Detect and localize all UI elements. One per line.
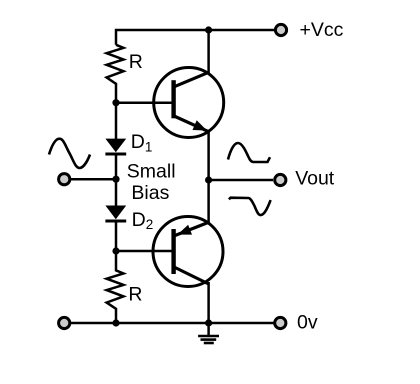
node top-rail/collector junction [205, 26, 212, 33]
diode D2 [105, 206, 126, 252]
terminal Vout [275, 174, 286, 185]
svg-text:0v: 0v [297, 311, 318, 333]
wire bottom rail [71, 322, 275, 325]
terminal input [59, 174, 70, 185]
svg-text:Bias: Bias [131, 182, 169, 204]
transistor Q2 (PNP) [153, 217, 223, 287]
svg-text:R: R [129, 51, 143, 73]
waveform positive half-cycle (above Vout) [228, 143, 270, 162]
terminal +Vcc [275, 24, 286, 35]
wire Vout node to terminal [209, 179, 273, 182]
svg-text:R: R [128, 284, 142, 306]
wire Q2 collector to bottom rail [207, 282, 210, 323]
node ground junction [205, 319, 212, 326]
wire Q1 emitter to Vout node [207, 130, 210, 180]
wire collector of Q1 to top rail [207, 30, 210, 74]
waveform negative half-cycle (below Vout) [229, 198, 271, 215]
input sine wave [49, 139, 90, 168]
wire Vout node to Q2 emitter [207, 180, 210, 224]
svg-text:Vout: Vout [295, 168, 335, 190]
wire base of Q1 [116, 101, 174, 104]
wire D2 anode lead [115, 179, 118, 206]
ground [198, 323, 219, 343]
node junction R/D1/base Q1 [112, 99, 119, 106]
wire top rail from R to +Vcc terminal [116, 30, 274, 45]
node bottom-left junction [112, 319, 119, 326]
terminal 0v [275, 317, 286, 328]
node bias junction [112, 176, 119, 183]
diode D1 [105, 139, 126, 179]
resistor R (bottom) [107, 251, 124, 323]
wire base of Q2 [116, 250, 174, 253]
node Vout junction [205, 176, 212, 183]
svg-text:Small: Small [127, 160, 176, 182]
wire input to bias node [71, 178, 117, 181]
node junction D2/R/base Q2 [112, 247, 119, 254]
terminal bottom-left (input return) [59, 317, 70, 328]
transistor Q1 (NPN) [154, 68, 224, 138]
resistor R (top) [107, 45, 124, 103]
wire D1 anode lead [115, 103, 118, 140]
svg-text:+Vcc: +Vcc [300, 19, 344, 41]
